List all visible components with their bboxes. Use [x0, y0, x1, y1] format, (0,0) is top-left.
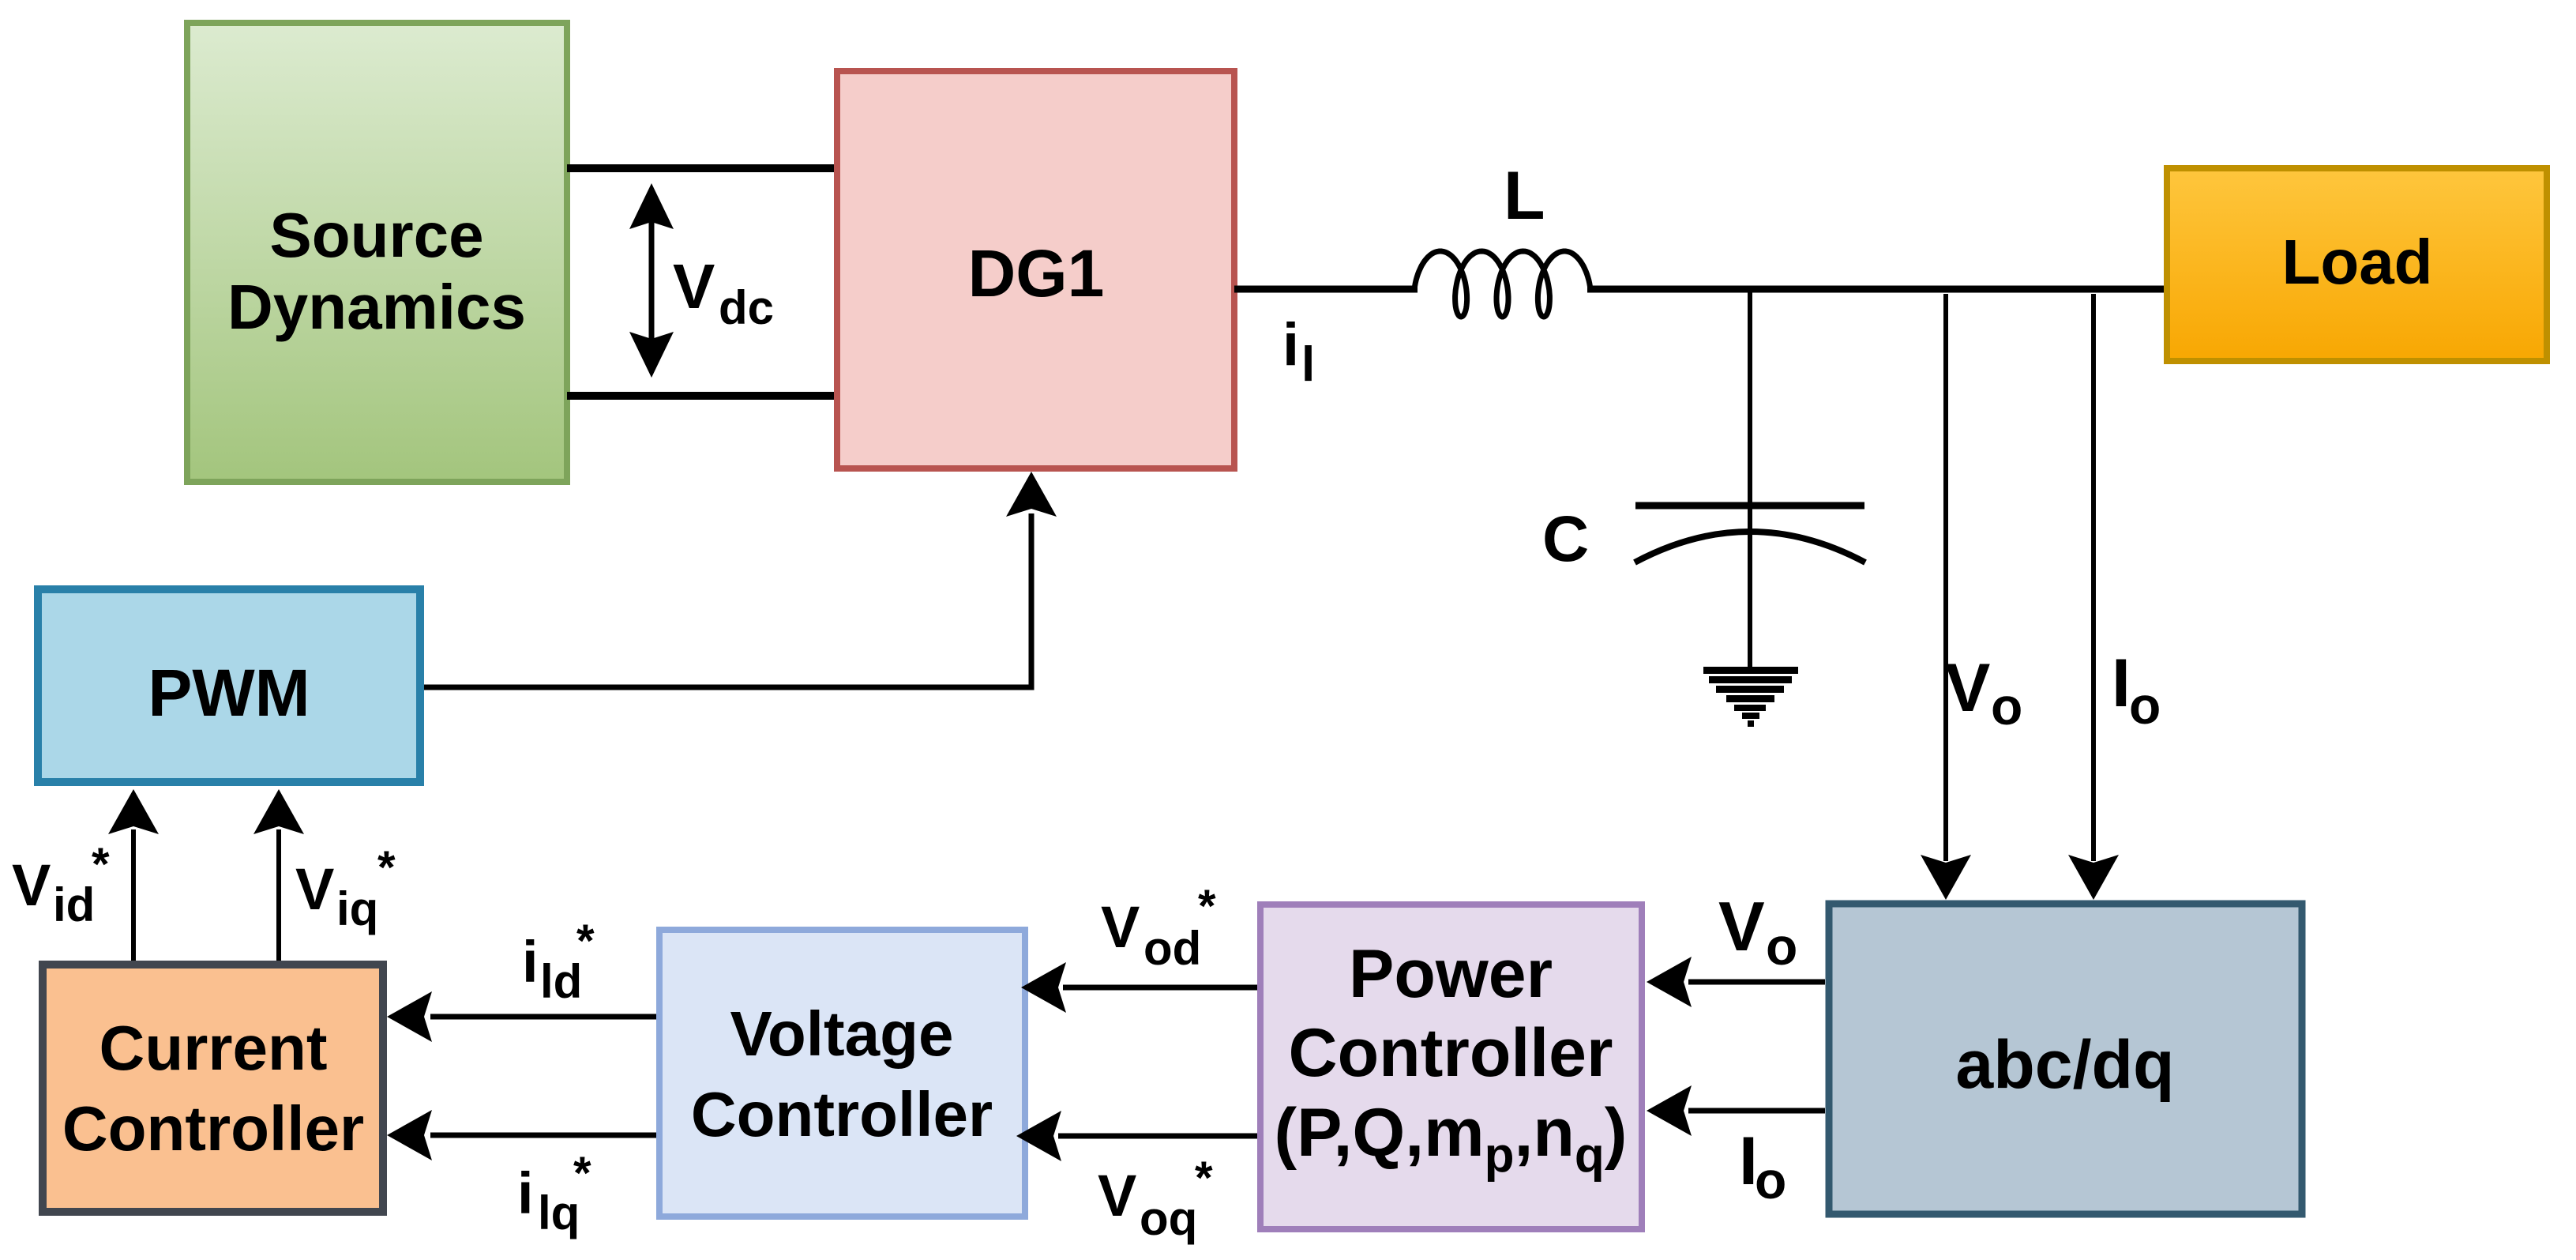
label Vod*	[1101, 881, 1216, 975]
label Voq*	[1098, 1153, 1213, 1245]
inductor L	[1414, 251, 1590, 317]
svg-text:I: I	[2112, 645, 2131, 721]
wire ilq* (Voltage Controller to Current Controller)	[387, 1110, 656, 1160]
svg-text:Voltage: Voltage	[730, 999, 953, 1069]
block DG1	[837, 71, 1234, 468]
label Io (to Power Controller)	[1739, 1123, 1786, 1209]
label il	[1282, 311, 1315, 392]
label Viq*	[295, 842, 396, 935]
svg-text:V: V	[12, 852, 51, 918]
Vdc measurement double arrow	[629, 183, 674, 378]
svg-text:Controller: Controller	[691, 1079, 993, 1149]
svg-text:o: o	[1755, 1151, 1786, 1209]
capacitor C top plate	[1635, 502, 1864, 510]
block abc/dq	[1829, 904, 2302, 1214]
svg-text:Controller: Controller	[1289, 1015, 1613, 1091]
svg-text:L: L	[1504, 158, 1545, 234]
block Source Dynamics	[187, 23, 567, 482]
svg-text:Current: Current	[100, 1013, 328, 1083]
wire Vid* (Current Controller to PWM)	[108, 789, 159, 961]
svg-text:(P,Q,mp,nq): (P,Q,mp,nq)	[1275, 1095, 1628, 1183]
svg-text:l: l	[1301, 337, 1315, 392]
wire Vod* (Power Controller to Voltage Controller)	[1021, 962, 1257, 1013]
svg-text:V: V	[295, 856, 334, 922]
wire Vdc bottom (Source Dynamics to DG1)	[567, 392, 837, 400]
svg-text:Source: Source	[269, 200, 483, 270]
wire Voq* (Power Controller to Voltage Controller)	[1016, 1111, 1257, 1161]
svg-text:DG1: DG1	[968, 236, 1105, 310]
svg-text:o: o	[1766, 917, 1797, 976]
block Load	[2167, 168, 2547, 361]
wire inductor to Load	[1587, 286, 2167, 293]
svg-text:id: id	[53, 878, 95, 931]
svg-text:Controller: Controller	[62, 1093, 364, 1164]
wire Io sense line (node to abc/dq)	[2068, 294, 2119, 900]
label Vo (to Power Controller)	[1718, 887, 1797, 976]
svg-text:abc/dq: abc/dq	[1955, 1027, 2174, 1103]
svg-text:od: od	[1143, 922, 1201, 975]
svg-text:o: o	[1991, 677, 2022, 735]
wire DG1 output to inductor	[1234, 286, 1418, 293]
label Vdc	[673, 251, 774, 334]
wire Vo (abc/dq to Power Controller)	[1647, 957, 1825, 1007]
svg-text:Load: Load	[2281, 227, 2432, 297]
label Io (sense line)	[2112, 645, 2161, 735]
svg-text:V: V	[1945, 650, 1990, 726]
svg-text:V: V	[1718, 887, 1765, 965]
svg-text:i: i	[522, 929, 539, 995]
block PWM	[38, 589, 420, 782]
svg-text:V: V	[673, 251, 715, 322]
wire Viq* (Current Controller to PWM)	[253, 789, 304, 961]
capacitor C bottom plate (curved)	[1635, 532, 1865, 562]
svg-text:*: *	[576, 916, 595, 967]
ground symbol	[1703, 667, 1798, 727]
wire Io (abc/dq to Power Controller)	[1647, 1085, 1825, 1136]
wire Vdc top (Source Dynamics to DG1)	[567, 164, 837, 172]
svg-text:Power: Power	[1349, 936, 1553, 1012]
svg-text:i: i	[517, 1160, 534, 1226]
label ild*	[522, 916, 595, 1008]
svg-text:C: C	[1542, 503, 1589, 575]
block Voltage Controller	[659, 930, 1025, 1217]
wire ild* (Voltage Controller to Current Controller)	[387, 991, 656, 1042]
svg-text:dc: dc	[719, 281, 774, 334]
svg-text:V: V	[1098, 1163, 1136, 1228]
wire Vo sense line (node to abc/dq)	[1921, 294, 1971, 900]
svg-text:oq: oq	[1140, 1192, 1197, 1245]
label Vo (sense line)	[1945, 650, 2022, 735]
svg-text:*: *	[573, 1148, 591, 1199]
svg-text:*: *	[377, 842, 396, 893]
svg-text:i: i	[1282, 311, 1299, 378]
svg-text:*: *	[1198, 881, 1216, 932]
label ilq*	[517, 1148, 591, 1239]
svg-text:PWM: PWM	[148, 656, 310, 730]
svg-text:*: *	[92, 839, 110, 890]
svg-text:*: *	[1195, 1153, 1213, 1204]
block Current Controller	[43, 965, 383, 1212]
block Power Controller	[1260, 905, 1642, 1229]
svg-text:iq: iq	[336, 882, 378, 935]
svg-text:o: o	[2129, 676, 2161, 735]
wire PWM to DG1 (horizontal then up arrow)	[424, 472, 1057, 687]
svg-text:Dynamics: Dynamics	[227, 272, 526, 342]
svg-text:V: V	[1101, 894, 1140, 960]
label Vid*	[12, 839, 110, 931]
wire capacitor branch vertical	[1748, 289, 1752, 670]
